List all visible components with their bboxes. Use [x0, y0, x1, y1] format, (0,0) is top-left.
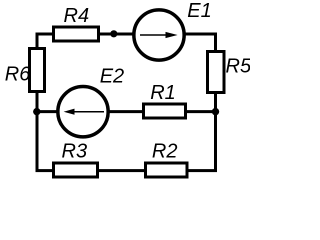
svg-text:R1: R1 — [150, 82, 176, 104]
svg-text:R6: R6 — [5, 64, 31, 86]
svg-text:E1: E1 — [187, 0, 211, 22]
svg-text:R2: R2 — [152, 141, 178, 163]
svg-text:R5: R5 — [226, 56, 251, 78]
svg-text:E2: E2 — [100, 66, 124, 88]
svg-text:R3: R3 — [62, 141, 88, 163]
svg-text:R4: R4 — [64, 5, 90, 27]
